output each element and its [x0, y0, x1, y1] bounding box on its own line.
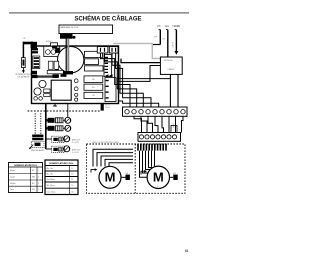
svg-text:61: 61 [185, 249, 189, 253]
wire [45, 119, 48, 121]
relay K2 [85, 51, 103, 57]
lamp socket S3 [52, 136, 65, 142]
capacitor M2 [170, 173, 178, 180]
svg-text:Terre: Terre [10, 188, 14, 191]
svg-text:1: 1 [38, 170, 39, 172]
svg-text:WH-14: WH-14 [105, 107, 110, 109]
motor M1 [99, 166, 121, 188]
svg-text:BK-14: BK-14 [105, 104, 110, 106]
wire M2 feed 4 [149, 151, 153, 168]
wire [22, 42, 24, 58]
svg-text:GN/YE: GN/YE [173, 122, 175, 128]
wire step 5 [162, 116, 164, 132]
svg-text:Ph.: Ph. [158, 26, 162, 28]
svg-text:GN/YE: GN/YE [173, 41, 175, 47]
lamp A2 [63, 125, 71, 131]
svg-text:7,5: 7,5 [71, 174, 73, 176]
connector plug CN2 [60, 34, 76, 39]
svg-text:MARCHE/ARRÊT: MARCHE/ARRÊT [31, 149, 45, 152]
wire M2 feed 3 [146, 151, 151, 170]
wire bundle hatch [138, 144, 166, 151]
ground arrow [22, 70, 25, 73]
wire [22, 68, 24, 71]
lamp socket S1 [48, 118, 63, 123]
wire M1 feed 2 [97, 153, 133, 167]
terminal strip X2 [138, 133, 181, 142]
lamp A4 [63, 146, 70, 152]
wire M2 feed 6 [154, 151, 156, 167]
coil L2 [54, 61, 59, 69]
connector J7 [61, 74, 67, 77]
wire step 1 [134, 116, 142, 132]
screw terminals [74, 79, 78, 101]
motor enclosure [86, 144, 185, 193]
wire ribbon [38, 75, 58, 77]
svg-text:Moteur: Moteur [10, 169, 16, 172]
component C2 [47, 70, 63, 73]
svg-text:M: M [153, 170, 164, 185]
svg-text:3: 3 [38, 183, 39, 185]
table nomenclature 1 [9, 163, 43, 193]
svg-text:SCHÉMA DE CÂBLAGE: SCHÉMA DE CÂBLAGE [74, 15, 141, 23]
svg-text:1,5: 1,5 [71, 168, 73, 170]
svg-text:Blan-Blanc: Blan-Blanc [47, 179, 55, 181]
label safety switch [15, 74, 32, 78]
control board U1 [32, 46, 119, 104]
connector J2 [31, 42, 38, 54]
wire M1 feed 5 [109, 163, 133, 167]
fuse block F3 [84, 84, 103, 90]
connector shell [171, 126, 177, 133]
wire [23, 42, 33, 45]
wire [45, 127, 48, 129]
svg-text:Neu: Neu [165, 26, 170, 28]
arrow M1 [91, 168, 97, 172]
connector J8 [63, 71, 73, 74]
wire [46, 138, 52, 140]
wire to module pin 1 [121, 59, 160, 63]
transformer T1 circle [57, 47, 83, 73]
wire staircase b [105, 53, 137, 107]
lamp A3 [63, 136, 70, 142]
capacitor M1 [121, 173, 130, 180]
wire staircase e [118, 101, 159, 107]
svg-text:Blu - Bla: Blu - Bla [47, 168, 53, 170]
svg-text:Lampe: Lampe [10, 177, 15, 179]
page rule [9, 12, 189, 13]
wire step 6 [168, 116, 170, 132]
wire lamp feed [45, 104, 47, 150]
motor M2 [147, 166, 169, 188]
svg-text:NOMENCLATURE COUL.: NOMENCLATURE COUL. [49, 162, 74, 165]
capacitor C4 [34, 97, 38, 101]
wire step 4 [155, 116, 158, 132]
coil L1 [48, 61, 53, 69]
terminal strip X1 [123, 107, 188, 116]
wire M1 feed 4 [105, 159, 133, 166]
lamp A1 [63, 117, 71, 123]
wire module pin 4 [177, 74, 179, 107]
earth arrow [174, 51, 178, 55]
svg-text:7,5: 7,5 [71, 185, 73, 187]
svg-text:M: M [105, 170, 116, 185]
wire module pin 3 [169, 74, 171, 107]
svg-text:CSA 22: CSA 22 [168, 68, 176, 71]
svg-text:Module: Module [10, 183, 16, 185]
arrows marker [105, 74, 113, 77]
svg-text:2 x 20 W: 2 x 20 W [72, 142, 79, 144]
svg-text:4: 4 [38, 189, 39, 191]
wire M2 feed 5 [151, 151, 153, 167]
relay module U3 [160, 57, 182, 74]
svg-text:TERRE: TERRE [172, 26, 180, 28]
connector CN6 pins [105, 78, 116, 102]
wire staircase d [116, 53, 151, 107]
relay K4 [85, 66, 104, 71]
component C7 [55, 48, 59, 53]
svg-text:Cais - Blanc: Cais - Blanc [47, 191, 56, 193]
relay K3 [85, 59, 99, 65]
label lamp A3 [72, 139, 81, 144]
capacitor C5 [39, 97, 43, 101]
svg-text:15: 15 [71, 179, 73, 181]
connector J1 [51, 43, 58, 46]
connector CN7 [32, 135, 43, 141]
wire node 4 [67, 104, 69, 118]
svg-text:MODULE: MODULE [164, 60, 173, 62]
wire ribbon bundle [66, 39, 68, 71]
wire step 8 [182, 116, 184, 132]
dashed sensor leads [35, 113, 41, 134]
label lamp A4 [72, 149, 81, 154]
thermal fuse F1 [22, 58, 26, 68]
wire M1 feed 1 [93, 149, 133, 166]
terminator block [101, 104, 104, 111]
relay K1 housing [44, 46, 60, 56]
svg-text:AVANT: AVANT [46, 40, 53, 43]
wire M2 feed 2 [143, 151, 149, 173]
connector CN3 [97, 47, 108, 53]
buzzer B2 [34, 88, 41, 95]
svg-text:2: 2 [38, 177, 39, 179]
lamp socket S2 [48, 126, 63, 131]
wire [46, 148, 52, 150]
resistor R1 [44, 89, 50, 93]
resistor R2 [44, 94, 50, 97]
supply wire Neu [166, 30, 168, 57]
connector J5 [32, 75, 38, 78]
svg-text:4: 4 [69, 108, 70, 110]
microcontroller U2 [51, 80, 71, 100]
switch SW1 [29, 141, 44, 149]
svg-text:BANDEAU DE CDE: BANDEAU DE CDE [61, 26, 79, 29]
svg-text:2 x 20 W: 2 x 20 W [72, 152, 79, 154]
lamp socket S4 [52, 146, 65, 152]
wire M2 feed 1 [140, 151, 148, 178]
arrow M2 [141, 170, 147, 175]
buzzer B1 [39, 80, 46, 87]
wire staircase a [101, 53, 131, 107]
connector CN4 [109, 47, 118, 53]
svg-text:NOMENCLATURE FILS: NOMENCLATURE FILS [14, 164, 37, 167]
ground [53, 104, 57, 107]
component C1 [52, 45, 57, 48]
svg-text:DE SÛRETÉ: DE SÛRETÉ [18, 75, 31, 78]
connector J6 [53, 74, 59, 78]
wire to module pin 2 [118, 66, 161, 82]
svg-text:Bla - Blanc: Bla - Blanc [47, 185, 55, 187]
wire staircase c [112, 53, 143, 107]
svg-text:Bla - Bla: Bla - Bla [47, 174, 53, 176]
connector J4 [32, 71, 37, 75]
wire M1 feed 3 [101, 156, 133, 166]
wire step 3 [148, 116, 153, 132]
wire [152, 44, 160, 46]
enclosure divider [134, 144, 136, 193]
wire white WH [113, 44, 160, 59]
wire step 2 [141, 116, 147, 132]
fuse block F2 [84, 76, 103, 83]
dashed separation line [28, 110, 101, 112]
fuse block F4 [84, 92, 103, 98]
header pins J3 [33, 56, 40, 69]
connector CN5 pins [104, 55, 112, 77]
component C6 [55, 67, 59, 71]
supply wire TERRE [175, 30, 177, 51]
wire step 7 [175, 116, 177, 132]
supply wire Ph [159, 30, 161, 45]
control panel box P1 [59, 25, 113, 34]
wire module output [118, 78, 171, 80]
table nomenclature 2 [45, 160, 78, 195]
